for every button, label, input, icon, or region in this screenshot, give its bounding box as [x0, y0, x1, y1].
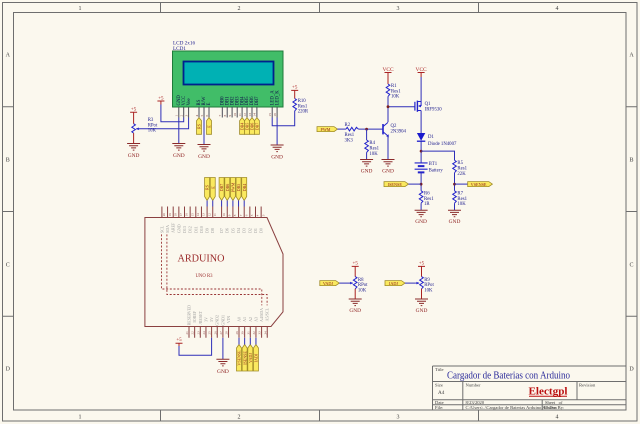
svg-text:SDA: SDA — [165, 225, 170, 233]
LCD pin stubs — [179, 107, 277, 118]
junction VSENSE node — [453, 183, 456, 186]
zone labels right — [629, 53, 634, 373]
LCD pin numbers — [175, 113, 277, 117]
svg-text:GND: GND — [271, 155, 283, 161]
svg-text:5: 5 — [200, 115, 204, 117]
svg-text:22K: 22K — [457, 172, 466, 177]
svg-text:VIN: VIN — [226, 316, 231, 323]
Arduino bottom pin numbers — [185, 331, 267, 335]
svg-text:24: 24 — [202, 331, 206, 335]
wire battery to ISENSE node — [420, 172, 422, 190]
svg-text:Res1: Res1 — [457, 197, 467, 202]
svg-text:GND2: GND2 — [215, 315, 220, 326]
wire R10 to LED_A pin — [272, 111, 295, 126]
svg-text:31: 31 — [246, 331, 250, 335]
svg-text:D1: D1 — [253, 228, 258, 233]
title block small captions — [435, 367, 596, 410]
wire R3 to ground — [133, 133, 135, 143]
svg-text:10K: 10K — [457, 202, 466, 207]
svg-text:/RESET: /RESET — [198, 310, 203, 324]
svg-text:VADJ: VADJ — [323, 281, 334, 286]
svg-text:VADJ: VADJ — [248, 353, 253, 363]
svg-text:R10: R10 — [298, 99, 307, 104]
wire node to VSENSE flag — [455, 183, 468, 185]
svg-text:D6: D6 — [225, 228, 230, 233]
net label flag VSENSE — [468, 182, 493, 187]
ground under R9 — [415, 299, 428, 306]
svg-text:21: 21 — [185, 331, 189, 335]
wire IADJ to R9 wiper — [405, 282, 416, 284]
svg-text:22: 22 — [191, 331, 195, 335]
svg-text:+5: +5 — [176, 338, 182, 343]
svg-text:GND: GND — [415, 219, 427, 225]
title block lines — [433, 366, 627, 410]
svg-text:UNO R3: UNO R3 — [196, 273, 213, 279]
ground under R7 — [448, 210, 461, 217]
svg-text:A5/SCL: A5/SCL — [265, 307, 270, 321]
svg-text:D9: D9 — [205, 228, 210, 233]
svg-text:E: E — [207, 103, 212, 106]
svg-text:12: 12 — [243, 113, 247, 117]
svg-text:D1: D1 — [428, 135, 434, 140]
svg-text:20: 20 — [162, 213, 166, 217]
wire R/W pin to ground — [203, 118, 205, 145]
net label flag ISENSE (Arduino) — [242, 345, 247, 372]
svg-text:2: 2 — [180, 115, 184, 117]
svg-text:R4: R4 — [369, 141, 375, 146]
ground under R8 — [349, 299, 362, 306]
Arduino UNO R3 body outline — [145, 218, 283, 327]
svg-text:Res1: Res1 — [298, 104, 308, 109]
svg-text:19: 19 — [168, 213, 172, 217]
zone labels left — [6, 53, 11, 373]
svg-text:4: 4 — [556, 415, 559, 421]
wire R7 to ground — [454, 203, 456, 210]
svg-text:C: C — [6, 263, 10, 269]
svg-text:D8: D8 — [210, 228, 215, 233]
wire +5 to 5V pin — [179, 338, 212, 355]
wire base node to R4 — [366, 129, 368, 140]
wire R6 to ground — [420, 203, 422, 210]
svg-text:Cargador de Baterias con Ardui: Cargador de Baterias con Arduino — [447, 370, 570, 382]
resistor R6 Res1 1R — [419, 191, 423, 203]
wire pin A2 to VADJ — [249, 338, 251, 345]
svg-text:Size: Size — [435, 383, 443, 388]
svg-text:9: 9 — [228, 115, 232, 117]
svg-text:Q1: Q1 — [425, 102, 431, 107]
net label flag IADJ — [385, 281, 405, 286]
wire VCC to Q1 source — [420, 77, 422, 102]
resistor R4 Res1 10K — [365, 140, 369, 152]
svg-text:PWM: PWM — [231, 182, 236, 192]
wire Arduino GND pin down — [222, 338, 224, 360]
svg-text:GND: GND — [176, 224, 181, 233]
net label flag DB5 (LCD) — [245, 118, 250, 135]
svg-text:29: 29 — [235, 331, 239, 335]
wire pin A0 to VSENSE — [238, 338, 240, 345]
svg-text:5V: 5V — [209, 317, 214, 322]
svg-text:220R: 220R — [298, 110, 309, 115]
svg-text:14: 14 — [196, 213, 200, 217]
svg-text:16: 16 — [273, 113, 277, 117]
wire flag RS to pin D9 — [206, 201, 208, 207]
potentiometer R3 RPot 10K — [132, 124, 136, 133]
svg-text:SCL: SCL — [159, 225, 164, 233]
wire flag DB5 to pin D4 — [238, 201, 240, 207]
svg-text:Title: Title — [435, 367, 444, 372]
wire R9 to ground — [421, 289, 423, 299]
svg-text:RS: RS — [197, 124, 202, 129]
svg-text:A3: A3 — [253, 317, 258, 322]
wire gate node to Q1 — [388, 106, 415, 108]
svg-text:DB4: DB4 — [242, 184, 247, 192]
svg-text:AREF: AREF — [171, 222, 176, 233]
svg-text:R1: R1 — [391, 84, 397, 89]
svg-text:25: 25 — [208, 331, 212, 335]
svg-text:2: 2 — [238, 6, 241, 12]
svg-text:18: 18 — [173, 213, 177, 217]
wire Q1 drain to D1 — [420, 111, 422, 134]
resistor R7 Res1 10K — [453, 191, 457, 203]
svg-text:GND: GND — [361, 169, 373, 175]
wire flag E to pin D8 — [212, 201, 214, 207]
wire Vee pin to potentiometer wiper — [140, 118, 189, 129]
svg-text:RPot: RPot — [424, 283, 434, 288]
svg-text:10: 10 — [233, 113, 237, 117]
resistor R1 Res1 10K — [386, 84, 390, 96]
svg-text:Res1: Res1 — [369, 147, 379, 152]
potentiometer R9 RPot 10K — [420, 277, 424, 289]
zone labels top — [79, 6, 559, 12]
svg-text:R8: R8 — [358, 278, 364, 283]
Arduino top pin names — [159, 222, 263, 233]
svg-text:A1: A1 — [242, 317, 247, 322]
svg-text:DB7: DB7 — [255, 123, 260, 131]
svg-text:BT1: BT1 — [429, 162, 438, 167]
wire flag DB4 to pin D3 — [243, 201, 245, 207]
svg-text:GND: GND — [349, 308, 361, 314]
svg-text:GND: GND — [173, 153, 185, 159]
svg-text:R5: R5 — [457, 161, 463, 166]
svg-text:D2: D2 — [247, 228, 252, 233]
svg-text:D12: D12 — [188, 226, 193, 233]
net label flag DB5 (Arduino) — [236, 178, 241, 201]
svg-text:D0: D0 — [259, 228, 264, 233]
ground under R6 — [415, 210, 428, 217]
svg-text:1: 1 — [175, 115, 179, 117]
svg-text:11: 11 — [213, 213, 217, 216]
svg-text:15: 15 — [268, 113, 272, 117]
diode D1 1N4007 — [417, 133, 425, 141]
svg-text:3: 3 — [184, 115, 188, 117]
ground under Q2 emitter — [382, 160, 395, 167]
net label flag VADJ (Arduino) — [248, 345, 253, 372]
svg-text:A2: A2 — [248, 317, 253, 322]
svg-text:Battery: Battery — [429, 169, 444, 174]
svg-text:10K: 10K — [424, 289, 433, 294]
svg-text:IADJ: IADJ — [389, 281, 398, 286]
svg-text:GND: GND — [128, 153, 140, 159]
svg-text:D3: D3 — [242, 228, 247, 233]
svg-text:10K: 10K — [369, 152, 378, 157]
net label flag IADJ (Arduino) — [253, 345, 258, 372]
Arduino bottom pin names — [187, 305, 270, 326]
wire ISENSE to node — [409, 183, 422, 185]
net label flag ISENSE — [384, 182, 409, 187]
net label flag PWM (Arduino) — [230, 178, 235, 201]
svg-text:Res1: Res1 — [391, 89, 401, 94]
svg-text:3: 3 — [397, 415, 400, 421]
ground under LCD GND pin — [172, 144, 185, 151]
svg-text:LED_K: LED_K — [275, 90, 280, 106]
Arduino header dashed outline A — [162, 234, 262, 305]
svg-text:10K: 10K — [391, 95, 400, 100]
net label flag DB4 (Arduino) — [242, 178, 247, 201]
svg-text:D13: D13 — [182, 226, 187, 233]
svg-text:14: 14 — [253, 113, 257, 117]
svg-text:IADJ: IADJ — [254, 353, 259, 362]
svg-text:32: 32 — [252, 331, 256, 335]
net label flag E (LCD) — [207, 118, 212, 135]
net label flag E (Arduino) — [210, 178, 215, 201]
svg-text:28: 28 — [225, 331, 229, 335]
svg-text:RPot: RPot — [358, 283, 368, 288]
svg-text:10K: 10K — [148, 129, 157, 134]
svg-text:B: B — [629, 158, 633, 164]
wire flag DB7 to pin D7 — [221, 201, 223, 207]
svg-text:A: A — [6, 53, 11, 59]
resistor R5 Res1 22K — [453, 160, 457, 172]
svg-text:16: 16 — [185, 213, 189, 217]
resistor R10 Res1 220R — [293, 99, 297, 111]
svg-text:R9: R9 — [424, 278, 430, 283]
svg-text:26: 26 — [213, 331, 217, 335]
net label flag VSENSE (Arduino) — [237, 345, 242, 372]
svg-text:2: 2 — [238, 415, 241, 421]
net label flag RS (LCD) — [197, 118, 202, 135]
svg-text:34: 34 — [263, 331, 267, 335]
svg-text:6: 6 — [205, 115, 209, 117]
svg-text:D: D — [6, 367, 11, 373]
net label flag DB4 (LCD) — [240, 118, 245, 135]
net label flag VADJ — [320, 281, 340, 286]
svg-text:GND: GND — [217, 369, 229, 375]
svg-text:C:\Users\..\Cargador de Bateri: C:\Users\..\Cargador de Baterias Arduino… — [466, 405, 558, 410]
Arduino top pin stubs — [162, 207, 261, 218]
wire Q2 emitter to ground — [387, 136, 389, 160]
ground under R3 — [127, 144, 140, 151]
svg-text:33: 33 — [258, 331, 262, 335]
zone labels bottom — [79, 415, 559, 421]
svg-text:17: 17 — [179, 213, 183, 217]
svg-text:Q2: Q2 — [391, 124, 397, 129]
svg-text:A0: A0 — [237, 317, 242, 322]
net label flag DB7 (LCD) — [254, 118, 259, 135]
svg-text:PWM: PWM — [320, 127, 330, 132]
svg-text:10: 10 — [222, 213, 226, 217]
wire pin A1 to ISENSE — [244, 338, 246, 345]
wire R5 to VSENSE node — [454, 173, 456, 191]
wire VCC pin to +5 — [161, 105, 184, 122]
svg-text:27: 27 — [219, 331, 223, 335]
svg-text:IOREF: IOREF — [192, 310, 197, 322]
wire flag DB6 to pin D6 — [226, 201, 228, 207]
svg-text:A: A — [629, 53, 634, 59]
svg-text:GND1: GND1 — [220, 315, 225, 326]
svg-text:DB6: DB6 — [225, 184, 230, 192]
net label flag PWM — [317, 127, 338, 132]
svg-text:30: 30 — [241, 331, 245, 335]
svg-text:GND: GND — [382, 169, 394, 175]
svg-text:2N3904: 2N3904 — [391, 130, 407, 135]
svg-text:1R: 1R — [424, 202, 430, 207]
MOSFET Q1 IRF9530 — [414, 102, 416, 111]
svg-text:ISENSE: ISENSE — [242, 351, 247, 365]
net label flag DB6 (LCD) — [250, 118, 255, 135]
svg-text:DB7: DB7 — [255, 96, 260, 106]
LCD LCD1 body — [173, 51, 284, 107]
wire LED_K pin to ground — [276, 118, 278, 146]
LCD pin names — [177, 90, 280, 106]
resistor R2 Res1 3K3 — [346, 127, 358, 131]
junction battery top node — [420, 150, 423, 153]
wire R2 to Q2 base — [358, 128, 383, 130]
LCD display area — [184, 62, 274, 85]
wire R8 to ground — [354, 289, 356, 299]
svg-text:Res1: Res1 — [457, 167, 467, 172]
svg-text:Res1: Res1 — [345, 133, 355, 138]
svg-text:D11: D11 — [193, 226, 198, 233]
svg-text:A4/SDA: A4/SDA — [259, 308, 264, 322]
svg-text:Res1: Res1 — [424, 197, 434, 202]
svg-text:D4: D4 — [236, 228, 241, 233]
wire PWM to R2 — [338, 128, 347, 130]
svg-text:B: B — [6, 158, 10, 164]
svg-text:3: 3 — [397, 6, 400, 12]
svg-text:RS: RS — [205, 185, 210, 190]
svg-text:IRF9530: IRF9530 — [425, 107, 443, 112]
svg-text:Vee: Vee — [187, 98, 192, 105]
wire LCD GND pin to ground — [178, 118, 180, 144]
junction gate node — [387, 105, 390, 108]
svg-text:10K: 10K — [358, 289, 367, 294]
svg-text:VSENSE: VSENSE — [237, 350, 242, 366]
svg-text:DB5: DB5 — [236, 184, 241, 192]
svg-text:GND: GND — [416, 308, 428, 314]
svg-text:RESERVED: RESERVED — [187, 305, 192, 325]
svg-text:1: 1 — [79, 415, 82, 421]
svg-text:R3: R3 — [148, 118, 154, 123]
battery BT1 — [415, 163, 428, 169]
svg-text:4: 4 — [556, 6, 559, 12]
wire D1 to battery node — [420, 141, 422, 163]
ground under R/W pin — [198, 145, 211, 152]
junction base node — [365, 128, 368, 131]
svg-text:D10: D10 — [199, 226, 204, 233]
ground under R4 — [360, 160, 373, 167]
svg-text:RPot: RPot — [148, 123, 158, 128]
svg-text:11: 11 — [238, 113, 242, 117]
svg-text:1: 1 — [79, 6, 82, 12]
svg-text:8: 8 — [223, 115, 227, 117]
wire R4 to ground — [366, 152, 368, 159]
svg-text:3V: 3V — [203, 317, 208, 322]
Arduino bottom pin stubs — [189, 327, 267, 338]
svg-text:VSENSE: VSENSE — [471, 182, 487, 187]
wire node to R5 — [421, 151, 454, 160]
Arduino top pin numbers — [162, 213, 265, 217]
svg-text:A4: A4 — [438, 390, 445, 396]
Arduino header dashed outline B — [167, 234, 267, 305]
net label flag DB6 (Arduino) — [225, 178, 230, 201]
ground under LED_K — [271, 145, 284, 152]
svg-text:R2: R2 — [345, 123, 351, 128]
svg-text:13: 13 — [202, 213, 206, 217]
svg-text:C: C — [629, 263, 633, 269]
svg-text:GND: GND — [198, 154, 210, 160]
svg-text:23: 23 — [196, 331, 200, 335]
svg-text:Diode 1N4007: Diode 1N4007 — [428, 142, 457, 147]
transistor Q2 2N3904 — [382, 124, 384, 134]
svg-text:13: 13 — [248, 113, 252, 117]
wire R1 to Q2 collector — [387, 96, 389, 122]
svg-text:File:: File: — [435, 405, 443, 410]
svg-text:Revision: Revision — [579, 383, 596, 388]
svg-text:D7: D7 — [219, 228, 224, 233]
wire flag PWM to pin D5 — [232, 201, 234, 207]
svg-text:12: 12 — [207, 213, 211, 217]
svg-text:DB7: DB7 — [219, 184, 224, 192]
net label flag DB7 (Arduino) — [219, 178, 224, 201]
wire VADJ to R8 wiper — [339, 282, 349, 284]
svg-text:D5: D5 — [230, 228, 235, 233]
ground under Arduino — [216, 359, 229, 366]
svg-text:R6: R6 — [424, 192, 430, 197]
svg-text:15: 15 — [190, 213, 194, 217]
svg-text:ISENSE: ISENSE — [388, 182, 403, 187]
svg-text:Number: Number — [466, 383, 482, 388]
svg-text:ARDUINO: ARDUINO — [178, 254, 225, 265]
svg-text:3K3: 3K3 — [345, 138, 354, 143]
potentiometer R8 RPot 10K — [353, 277, 357, 289]
svg-text:GND: GND — [449, 219, 461, 225]
svg-text:4: 4 — [195, 115, 199, 117]
net label flag RS (Arduino) — [205, 178, 210, 201]
svg-text:7: 7 — [218, 115, 222, 117]
svg-text:R7: R7 — [457, 192, 463, 197]
junction ISENSE node — [420, 183, 423, 186]
svg-text:D: D — [629, 367, 634, 373]
wire pin A3 to IADJ — [255, 338, 257, 345]
